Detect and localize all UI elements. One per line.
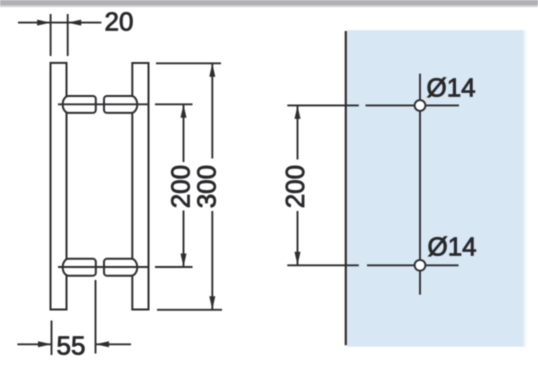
lower drill hole <box>415 260 426 271</box>
svg-text:20: 20 <box>105 7 134 37</box>
upper standoff right piece <box>104 96 137 113</box>
svg-text:Ø14: Ø14 <box>428 232 477 262</box>
lower centerline extension <box>155 266 193 268</box>
upper bolt centerline <box>58 103 149 105</box>
top extension line for 300 <box>156 62 221 64</box>
upper hole centerline segment a <box>287 104 359 106</box>
dimension 200 line lower segment <box>183 211 185 267</box>
lower standoff left piece <box>63 259 96 276</box>
panel dimension 200 arrow down <box>295 252 301 266</box>
upper standoff left piece <box>63 96 96 113</box>
dimension 55 extension line right <box>95 280 97 354</box>
handle bar left <box>51 63 67 310</box>
dimension 55 line right segment <box>96 343 132 345</box>
dimension 55 arrow left-pointing <box>96 341 110 347</box>
lower standoff right piece <box>104 259 137 276</box>
lower hole centerline segment a <box>287 264 359 266</box>
dimension 200 arrow up <box>181 104 187 118</box>
dimension 20 line <box>18 22 101 24</box>
dimension 20 arrow right-pointing <box>37 20 51 26</box>
dimension 300 line lower segment <box>211 211 213 309</box>
glass panel <box>347 30 529 347</box>
dimension 55 extension line left <box>51 321 53 356</box>
dimension 55 arrow right-pointing <box>38 341 52 347</box>
bottom extension line for 300 <box>157 309 222 311</box>
dimension 55 line left segment <box>17 343 51 345</box>
upper centerline extension <box>155 103 193 105</box>
upper hole centerline segment b <box>366 104 460 106</box>
dimension 20 extension tick left <box>50 14 52 56</box>
panel dimension 200 arrow up <box>295 105 301 119</box>
svg-text:300: 300 <box>192 165 222 208</box>
lower hole centerline segment b <box>367 264 459 266</box>
dimension 20 arrow left-pointing <box>68 20 82 26</box>
lower bolt centerline <box>58 266 149 268</box>
glass panel left edge <box>345 31 347 345</box>
dimension 300 arrow up <box>209 63 215 77</box>
dimension 300 arrow down <box>209 296 215 310</box>
svg-text:55: 55 <box>57 331 86 361</box>
dimension 200 line upper segment <box>183 105 185 162</box>
header grey bar <box>0 0 538 8</box>
svg-text:200: 200 <box>280 165 310 208</box>
upper drill hole <box>415 100 426 111</box>
dimension 300 line upper segment <box>211 64 213 159</box>
panel dimension 200 line lower segment <box>297 211 299 265</box>
dimension 20 extension tick right <box>67 14 69 56</box>
dimension 200 arrow down <box>181 254 187 268</box>
hole vertical centerline <box>419 74 421 295</box>
svg-text:Ø14: Ø14 <box>427 72 476 102</box>
handle bar right <box>132 63 148 310</box>
panel dimension 200 line upper segment <box>297 106 299 160</box>
